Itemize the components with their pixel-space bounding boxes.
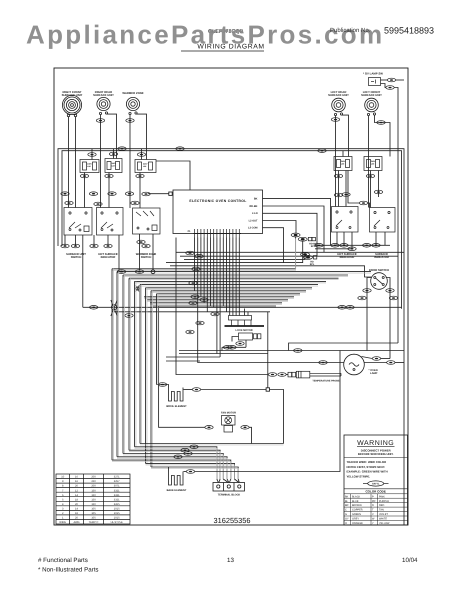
svg-text:PURPLE: PURPLE [379,500,389,503]
svg-text:L2 OUT: L2 OUT [249,219,258,222]
svg-text:LIM: LIM [112,165,116,168]
svg-text:5995418893: 5995418893 [384,26,434,36]
wire left bundle drop 3 [122,275,124,454]
terminal block [213,483,245,492]
svg-text:YELLOW: YELLOW [379,522,390,525]
splice limiter3 top [137,153,145,157]
splice bus b [135,270,143,274]
wire long loop row [179,350,404,352]
svg-text:* OV LAMP SW: * OV LAMP SW [363,72,383,76]
wire eoc pin drop 5 [206,238,208,312]
wire switch4 feed [345,171,347,207]
warning box [344,435,408,525]
wire eoc out l2 com [263,228,284,263]
wire eoc pin drop 12 [229,238,231,316]
svg-text:GN-YL: GN-YL [372,483,380,486]
svg-text:RED: RED [379,504,384,507]
wire bottom row 1 [140,443,284,445]
diagram outer border [54,68,408,525]
svg-text:TRACER WIRE: WIRE COLOR: TRACER WIRE: WIRE COLOR [347,460,387,464]
splice right bus c [340,244,348,248]
wire switch3 drop long b [152,234,154,270]
splice row y246 right b [142,244,150,248]
wire limiter4 right stub [348,171,359,204]
wire limiter4 top stub [342,151,344,157]
splice door e [338,306,346,310]
wire eoc pin drop 10 [222,238,224,307]
svg-text:WIRING DIAGRAM: WIRING DIAGRAM [197,44,264,51]
wire eoc pin drop 14 [235,238,237,316]
splice c [108,192,116,196]
wire lock switch link [232,337,239,342]
splice bottom b [181,448,189,452]
surface switch 1 (right front) [64,208,92,236]
wire bottom row 7 [146,463,235,479]
wire eoc pin drop 11 [226,238,228,312]
wire right switch drops e [384,232,386,245]
svg-text:EXAMPLE: GREEN WIRE WITH: EXAMPLE: GREEN WIRE WITH [347,470,388,474]
wire switch1 drop long [82,235,84,307]
lock motor assembly [225,316,265,327]
wire bottom row 2 [135,447,217,479]
splice bus c [90,306,98,310]
wire limiter4 bottom stub [338,171,340,207]
surface unit coil left rear [332,98,346,115]
svg-text:LIM: LIM [341,163,345,166]
wire coil4 right lead [342,115,349,156]
splice lamp a [372,357,380,361]
wire eoc pin drop 8 [216,238,218,354]
wire bottom row 5 [117,457,227,479]
wire drop bundle scan shadow [113,269,158,467]
svg-text:LIM: LIM [371,163,375,166]
wire door switch right drop [386,278,390,359]
wire left bundle drop 1 [111,269,113,460]
splice limiter5 bottom [366,174,374,178]
splice between right switches [359,201,367,205]
splice top rail a [118,147,126,151]
splice row y246 d [104,244,112,248]
svg-text:105: 105 [91,508,96,511]
eoc connector P1 pins [194,229,242,238]
svg-text:* Non-Illustrated Parts: * Non-Illustrated Parts [38,567,99,574]
splice bottom a [190,445,198,449]
splice coil5 [377,121,385,125]
wire bake left lead [168,467,170,472]
svg-text:NOTED FIRST, STRIPE NEXT.: NOTED FIRST, STRIPE NEXT. [347,465,386,469]
wire bus row 20 [114,311,270,313]
wire limiter5 bottom stub [370,171,372,208]
svg-text:200: 200 [91,476,96,479]
wire terminal fan a [217,479,220,483]
splice limiter4 low [334,193,342,197]
svg-text:SWITCH: SWITCH [71,256,82,259]
splice pin drop b [195,254,203,258]
splice row y246 a [61,244,69,248]
svg-text:VIOLET: VIOLET [379,513,388,516]
limiter 3 (warmer) [135,160,156,173]
junction bowtie node [136,286,140,292]
wire gauge table [56,474,130,524]
wire bus row 4 [166,241,303,263]
wire lamp top right stub [362,357,373,359]
svg-text:ELECTRONIC OVEN CONTROL: ELECTRONIC OVEN CONTROL [189,199,246,203]
svg-text:SWITCH: SWITCH [141,256,152,259]
wire lamp switch right [381,79,388,81]
splice limiter2 top [109,152,117,156]
splice b [89,192,97,196]
svg-text:LAMP: LAMP [370,372,378,375]
wire eoc pin drop 13 [232,238,234,316]
wire broil left lead [157,385,169,388]
svg-text:WIRE: WIRE [59,521,66,524]
title underline [181,50,264,52]
wire lock motor feed b [247,312,249,316]
wire top rail 2 [62,151,402,309]
splice pin drop f [200,298,208,302]
splice broil b [192,388,200,392]
splice limiter5 low [374,190,382,194]
svg-text:WARNING: WARNING [357,440,394,447]
splice pin drop k [228,346,236,350]
wire loop row 4 [166,360,200,362]
surface unit coil right rear [97,97,110,114]
svg-text:GREEN: GREEN [352,513,361,516]
svg-text:FAN MOTOR: FAN MOTOR [221,411,236,414]
wire left bundle drop 7 [145,288,147,464]
wire bus row 1 [176,251,404,253]
splice row y246 c [90,244,98,248]
svg-text:150: 150 [91,503,96,506]
svg-text:3265: 3265 [114,503,120,506]
splice connector cluster mid [291,233,315,241]
splice limiter2 bottom [105,174,113,178]
splice pin drop d [189,281,197,285]
svg-text:3321: 3321 [114,494,120,497]
splice limiter1 bottom [80,174,88,178]
wire eoc pin drop 6 [210,238,212,307]
splice right bus f [348,247,356,251]
wire door switch left drop [367,278,372,351]
wire bundle scan shadow [112,238,371,307]
splice bake a [186,470,194,474]
wire terminal fan b [223,479,231,483]
wire lock oval stub [245,340,247,347]
svg-text:BK: BK [345,495,349,498]
splice lock a [223,346,231,350]
splice h [65,201,73,205]
wire bus row 6 [112,237,296,269]
svg-text:AWG: AWG [73,521,79,524]
bake element [169,472,183,486]
warmer zone switch box [133,208,161,234]
svg-text:SURFACE UNIT: SURFACE UNIT [328,93,349,97]
svg-text:BROIL ELEMENT: BROIL ELEMENT [166,405,187,408]
wire bus row 8 [123,274,348,276]
svg-text:BR: BR [345,504,349,507]
node square j1 [169,192,172,195]
svg-text:BEFORE SERVICING UNIT.: BEFORE SERVICING UNIT. [358,452,394,456]
svg-text:RD: RD [310,261,314,264]
wire lamp switch to rail 2 [394,88,398,344]
wire coil5 left lead [368,116,370,208]
splice bus a [117,270,125,274]
svg-text:BROWN: BROWN [352,504,362,507]
wire switch2 drop a [93,235,95,246]
surface unit coil right front [62,95,81,116]
wire left bundle drop 8 [150,291,152,467]
svg-text:PINK: PINK [379,495,385,498]
wire bus row 16 [147,299,288,301]
wire bus row 11 [140,284,318,286]
wire right bus row b [315,248,352,250]
svg-text:RD-BK: RD-BK [249,205,257,208]
wire node j3 right [270,390,284,444]
wire probe link [286,374,288,376]
splice lamp switch b [386,86,394,90]
svg-text:TEMP C: TEMP C [89,521,99,524]
wire right switch drops b [343,232,345,245]
surface switch 4 (left rear) [332,207,359,233]
wire coil3 left lead [129,115,131,208]
wire right bus row a [315,244,390,246]
wire left bundle drop 6 [139,285,141,444]
wire eoc pin drop 2 [198,238,344,363]
splice connector cluster mid lower [301,253,317,260]
svg-text:DOOR SWITCH: DOOR SWITCH [369,268,389,272]
splice pin drop h [211,312,219,316]
svg-text:O: O [345,522,347,525]
wire lamp right rail link [395,362,404,364]
electronic oven control U1 [173,190,263,234]
splice f [94,202,102,206]
svg-text:LOCK MOTOR: LOCK MOTOR [235,329,252,332]
splice right bus a [315,244,323,248]
broil element [169,388,183,402]
wire eoc pin drop 7 [213,238,215,308]
wire coil3 right lead [136,114,147,159]
svg-text:3257: 3257 [114,480,120,483]
svg-text:TERMINAL BLOCK: TERMINAL BLOCK [218,494,241,497]
wire coil1 left lead [68,117,70,208]
svg-text:ORANGE: ORANGE [352,522,363,525]
wire bottom bundle scan shadow [112,445,284,481]
splice fan b [241,426,249,430]
wire eoc out bk [263,198,331,245]
svg-text:1015: 1015 [114,512,120,515]
splice lamp left [319,361,327,365]
svg-text:SURFACE UNIT: SURFACE UNIT [361,93,382,97]
wire limiter3 to eoc [156,161,190,190]
svg-text:INDICATOR: INDICATOR [101,256,116,259]
wire right switch drops c [351,232,353,249]
row of splices y194 left [61,192,69,196]
wire coil4 left lead [335,116,337,207]
svg-text:YELLOW STRIPE.: YELLOW STRIPE. [347,474,371,478]
wire eoc pin drop 4 [203,238,205,303]
wire switch1 drop b [75,235,77,246]
wire limiter1 top stub [91,149,93,160]
wire limiter2 top stub [113,149,115,159]
limiter 2 (right rear) [105,159,122,173]
surface switch 5 (left front) [370,208,396,233]
splice right bus e [372,244,380,248]
svg-text:105: 105 [91,517,96,520]
splice pin drop i [196,321,204,325]
splice right bus d [363,244,371,248]
splice bottom c [184,452,192,456]
wire eoc pin drop 1 [194,238,196,291]
splice top rail b [176,147,184,151]
splice pin drop e [191,295,199,299]
svg-text:150: 150 [91,489,96,492]
limiter 1 (right front) [80,160,99,173]
splice broil a [158,383,166,387]
splice pin drop c [192,267,200,271]
svg-text:13: 13 [227,557,234,564]
splice right bus b [331,244,339,248]
splice bottom d [174,455,182,459]
splice limiter1 top [88,153,96,157]
wire lamp switch to rail [396,79,404,81]
surface switch 2 (right rear) [97,208,124,236]
svg-text:BLUE: BLUE [352,500,359,503]
svg-text:# Functional Parts: # Functional Parts [38,557,88,564]
wire limiter5 right stub [378,171,380,198]
node circle j2 [151,270,155,274]
wire loop row 2 [179,353,268,355]
wire bus row 5 [170,266,371,277]
svg-text:PR: PR [372,500,376,503]
svg-text:LIM: LIM [87,165,91,168]
wire left bundle drop 9 [156,294,158,385]
wire bake right [184,471,187,473]
lock motor switch box [239,333,261,340]
splice pin drop g [189,301,197,305]
wire bus row 9 [129,277,339,279]
wire eoc pin drop 9 [219,238,221,358]
limiter 5 (left front) [364,157,382,171]
splice switch4 feed [342,193,350,197]
wire left bundle drop 4 [128,278,130,450]
svg-text:Publication No.: Publication No. [330,27,371,34]
svg-text:COLOR CODE: COLOR CODE [366,490,386,494]
svg-text:TAN: TAN [379,509,384,512]
splice lamp b [387,361,395,365]
splice e [142,192,150,196]
wire lamp top feed [289,343,398,351]
wire right switch drops d [375,232,377,245]
wire lock motor feed a [244,309,246,316]
svg-text:1015: 1015 [114,517,120,520]
svg-text:1015: 1015 [114,508,120,511]
splice probe b [278,373,286,377]
svg-text:L1-N: L1-N [252,212,258,215]
wire left bundle drop 5 [134,281,136,446]
wire eoc out l1-n [263,213,318,256]
svg-text:SURFACE UNIT: SURFACE UNIT [93,93,114,97]
splice door c [358,296,366,300]
splice fan a [205,426,213,430]
svg-text:C: C [345,509,347,512]
svg-text:GREY: GREY [352,518,359,521]
wire loop row 3 [166,356,220,358]
wire bus row 15 [144,296,294,298]
wire bottom row 8 [151,467,238,479]
splice top rail c [318,149,326,153]
svg-text:3321: 3321 [114,489,120,492]
splice limiter4 bottom [334,174,342,178]
wire switch1 drop a [64,235,66,246]
wire lamp switch bottom [381,84,386,88]
wire node j3 up [267,312,269,388]
wire limiter1 bottom stub [84,173,86,208]
warning divider [344,457,408,459]
svg-text:105: 105 [91,512,96,515]
wire coil5 right lead [375,115,391,156]
wire top rail 1 [58,149,404,525]
wire coil1 right lead [75,117,77,208]
wire fan right [249,427,251,443]
wire gauge table text [59,476,123,524]
wire switch3 drop long a [139,234,141,272]
splice g [131,201,139,205]
wire lamp right [364,362,386,364]
surface unit coil left front [365,98,379,115]
wire broil to node [201,389,266,391]
wire to switch5 [368,203,370,208]
wire probe left feed [176,238,268,375]
splice limiter3 bottom [136,174,144,178]
svg-text:GY: GY [345,518,349,521]
splice door f [346,306,354,310]
svg-text:R: R [372,504,374,507]
svg-text:L2 COM: L2 COM [248,227,257,230]
color code table [344,488,408,490]
splice lamp switch a [387,78,395,82]
splice loop row [294,349,302,353]
splice pin drop a [186,251,194,255]
node square j3 [266,388,269,391]
wire bus row 10 [135,280,327,282]
wire bus row 17 [150,302,282,304]
temperature probe [288,371,341,378]
splice coil4 [331,118,339,122]
splice d [125,192,133,196]
wire limiter3 bottom stub [139,173,141,209]
wire fan left [159,306,205,427]
svg-text:SURFACE UNIT: SURFACE UNIT [62,93,83,97]
splice probe a [268,373,276,377]
wire bus row 2 [180,255,398,257]
wire limiter3 top stub [141,149,143,160]
wire eoc pin drop 15 [238,238,240,316]
svg-text:150: 150 [91,494,96,497]
wire eoc out rd-bk [263,206,325,252]
svg-text:316255356: 316255356 [214,516,251,525]
wire bottom row 3 [129,450,220,479]
limiter 4 (left rear) [334,157,352,171]
splice coil3 [126,119,134,123]
color code text [345,495,390,525]
svg-text:COPPER: COPPER [352,509,363,512]
splice pin drop j [186,330,194,334]
wire lock switch bottom [222,346,246,348]
wire bake long run [195,351,340,472]
wire bus row 19 [83,306,402,308]
svg-text:BK: BK [254,197,258,200]
splice row y246 b [71,244,79,248]
